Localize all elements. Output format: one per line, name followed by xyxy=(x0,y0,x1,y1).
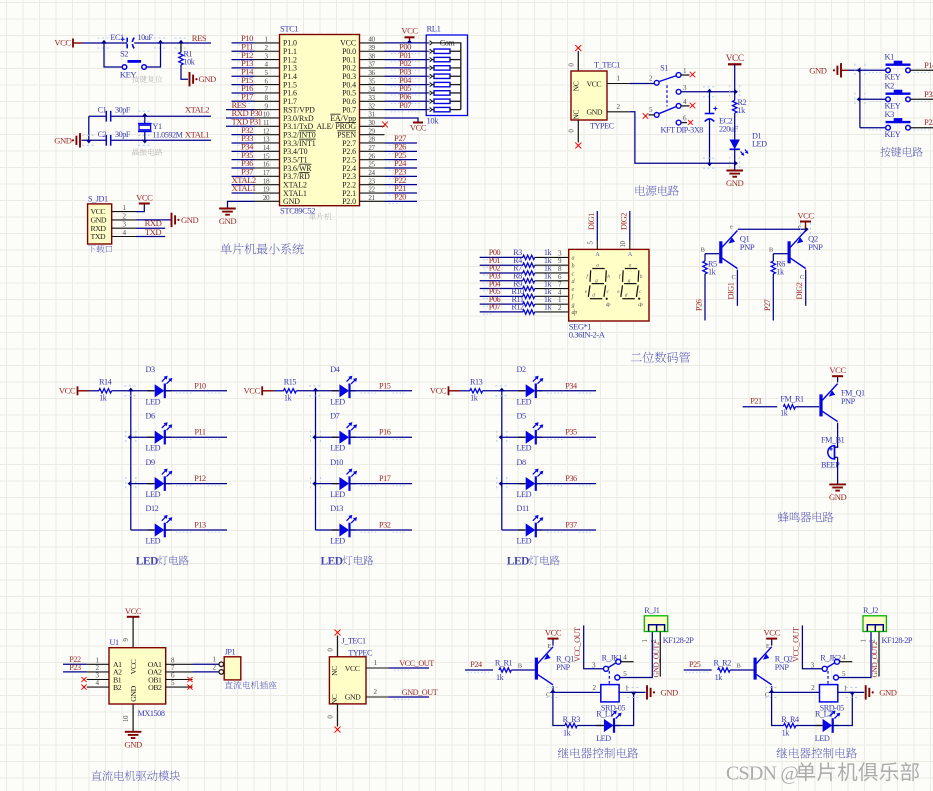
svg-text:20: 20 xyxy=(263,194,270,202)
svg-text:LED: LED xyxy=(146,397,161,406)
svg-text:LED: LED xyxy=(146,444,161,453)
svg-text:LED: LED xyxy=(517,537,532,546)
svg-text:VCC_OUT: VCC_OUT xyxy=(573,627,582,662)
wire R to SEG xyxy=(535,288,569,296)
svg-text:D11: D11 xyxy=(517,504,530,513)
wire RXD P30 xyxy=(226,108,262,118)
resistor R10 1k xyxy=(511,287,552,299)
annotation TYPEC xyxy=(590,122,615,131)
svg-text:C2: C2 xyxy=(98,130,107,139)
svg-text:KFT DIP-3X8: KFT DIP-3X8 xyxy=(661,125,704,134)
wire TEC top stub xyxy=(568,51,579,71)
no-ERC mark (TEC top) xyxy=(575,45,581,51)
svg-text:NC: NC xyxy=(330,666,339,676)
svg-text:T_TEC1: T_TEC1 xyxy=(594,61,620,70)
wire FM_R1 to base xyxy=(795,406,819,408)
switch R_JK1 xyxy=(592,653,627,680)
switch S2 KEY xyxy=(120,50,147,80)
svg-text:VCC: VCC xyxy=(587,79,602,88)
no-ERC mark B1 xyxy=(81,677,86,682)
capacitor EC2 220uF xyxy=(705,92,739,163)
wire P02 xyxy=(385,58,427,70)
wire S2 right leg xyxy=(147,43,161,67)
no-ERC mark (J_TEC bottom) xyxy=(335,727,341,733)
wire D1 to GND xyxy=(734,149,736,170)
wire Q2 base xyxy=(773,253,787,255)
U1 pin 5 OB2 xyxy=(148,679,192,692)
svg-text:R14: R14 xyxy=(99,377,112,386)
wire XTAL1 pin19 xyxy=(232,183,256,193)
svg-text:30: 30 xyxy=(368,119,375,127)
svg-text:D13: D13 xyxy=(330,504,343,513)
svg-text:STC1: STC1 xyxy=(280,24,298,34)
diode D13 LED xyxy=(330,504,357,545)
power port VCC (EA) inverted xyxy=(410,123,427,133)
ground (reset) xyxy=(190,72,217,86)
wire R to SEG xyxy=(535,273,569,281)
svg-text:S1: S1 xyxy=(660,64,668,73)
svg-text:GND: GND xyxy=(199,74,217,84)
S_JD1 pin name VCC xyxy=(91,207,106,216)
resistor R2 1k xyxy=(733,92,747,115)
svg-text:VCC: VCC xyxy=(829,365,846,375)
svg-text:0.36IN-2-A: 0.36IN-2-A xyxy=(569,330,606,340)
svg-text:FM_R1: FM_R1 xyxy=(780,394,804,403)
wire P01 xyxy=(385,50,427,62)
wire LED trunk xyxy=(501,391,503,530)
wire XTAL2 pin18 xyxy=(232,175,256,185)
wire LED trunk xyxy=(130,391,132,530)
wire to K3 xyxy=(860,127,886,129)
wire P15 out xyxy=(349,381,412,393)
wire VCC to U1 pin9 xyxy=(122,617,133,648)
title 继电器控制电路 xyxy=(777,748,857,759)
junction xyxy=(309,386,322,396)
wire collector to coil xyxy=(772,684,820,692)
svg-text:P27: P27 xyxy=(763,299,772,311)
svg-text:KF128-2P: KF128-2P xyxy=(663,636,694,645)
svg-text:R15: R15 xyxy=(284,377,297,386)
svg-text:P32: P32 xyxy=(379,521,391,530)
title LED灯电路 xyxy=(321,555,374,567)
svg-text:RES: RES xyxy=(192,33,207,43)
wire P00 xyxy=(385,41,427,53)
wire P16 xyxy=(232,83,255,95)
no-ERC mark (J_TEC top) xyxy=(335,630,341,636)
wire P06 xyxy=(385,91,427,103)
resistor R14 1k xyxy=(99,377,112,402)
wire P37 xyxy=(232,167,255,179)
svg-text:D7: D7 xyxy=(330,411,339,420)
wire Q1 base xyxy=(705,253,719,255)
U1 pin 4 B2 xyxy=(87,679,122,692)
svg-text:XTAL1: XTAL1 xyxy=(232,183,256,193)
svg-text:11.0592M: 11.0592M xyxy=(153,130,184,139)
junction xyxy=(765,687,778,697)
svg-text:VCC_OUT: VCC_OUT xyxy=(399,659,434,668)
power port VCC (Q1 Q2) xyxy=(797,210,814,229)
svg-text:EC1: EC1 xyxy=(110,33,124,42)
svg-text:GND: GND xyxy=(345,692,361,701)
transistor Q2 PNP xyxy=(769,224,823,282)
wire LED up to coil pin1 xyxy=(832,692,852,725)
wire R to SEG xyxy=(535,281,569,289)
no-ERC mark B2 xyxy=(81,685,86,690)
S_JD1 pin name RXD xyxy=(91,224,107,233)
svg-text:D12: D12 xyxy=(146,504,159,513)
annotation 晶振电路 xyxy=(132,148,162,155)
wire EA/Vpp to VCC xyxy=(385,118,419,123)
svg-text:29: 29 xyxy=(368,127,375,135)
wire to D9 xyxy=(131,483,154,485)
power port VCC (LED col) xyxy=(430,386,460,396)
svg-text:GND_OUT2: GND_OUT2 xyxy=(651,641,660,677)
svg-text:LED: LED xyxy=(330,397,345,406)
wire collector to coil xyxy=(553,684,601,692)
wire P22 xyxy=(63,655,87,665)
resistor R8 1k xyxy=(513,271,552,283)
S_JD1 pin name GND xyxy=(91,216,107,225)
junction xyxy=(801,223,811,236)
svg-text:GND_OUT: GND_OUT xyxy=(402,688,438,697)
ground (buzzer) xyxy=(829,484,847,502)
wire K2 out xyxy=(869,89,933,102)
junction xyxy=(138,111,151,121)
svg-text:40: 40 xyxy=(368,36,375,44)
wire GND_OUT xyxy=(388,688,438,699)
switch S1 KFT DIP-3X8 xyxy=(649,64,703,135)
wire R to LED xyxy=(796,725,822,727)
watermark CSDN xyxy=(726,762,919,784)
wire Q2 collector DIG2 xyxy=(795,270,806,306)
junction xyxy=(855,93,865,106)
wire P11 out xyxy=(164,428,227,440)
wire P02 to R xyxy=(480,264,523,276)
svg-text:MX1508: MX1508 xyxy=(138,709,165,718)
svg-text:39: 39 xyxy=(368,44,375,52)
svg-text:XTAL1: XTAL1 xyxy=(185,130,209,140)
svg-text:19: 19 xyxy=(263,186,270,194)
transistor R_Q2 PNP xyxy=(754,643,793,699)
wire coil pin1 to GND xyxy=(619,691,645,693)
svg-text:VCC: VCC xyxy=(244,386,261,396)
svg-text:27: 27 xyxy=(368,144,375,152)
svg-text:JP1: JP1 xyxy=(225,648,236,657)
svg-text:P35: P35 xyxy=(565,428,577,437)
svg-text:10: 10 xyxy=(122,715,130,722)
display SEG*1 0.36IN-2-A xyxy=(569,249,649,339)
wire VCC_OUT (relay) xyxy=(573,625,604,668)
J_TEC1 pin2 stub xyxy=(366,688,388,697)
svg-text:P25: P25 xyxy=(689,660,701,669)
resistor R6 1k xyxy=(771,260,785,277)
wire LED up to coil pin1 xyxy=(614,692,634,725)
wire P04 xyxy=(385,75,427,87)
svg-text:NC: NC xyxy=(572,110,581,120)
svg-text:GND: GND xyxy=(726,178,744,188)
junction xyxy=(730,85,740,98)
power port VCC (motor) xyxy=(125,606,142,617)
connector S_JD1 xyxy=(88,195,112,245)
wire U1 pin10 GND xyxy=(122,704,133,731)
wire XTAL2 rail xyxy=(89,115,211,117)
svg-text:PNP: PNP xyxy=(556,663,571,672)
junction xyxy=(311,477,321,490)
svg-text:32: 32 xyxy=(368,102,375,110)
wire R to LED xyxy=(577,725,603,727)
wire P12 out xyxy=(164,474,227,486)
wire P05 xyxy=(385,83,427,95)
resistor network RL1 10k xyxy=(426,24,467,126)
svg-text:P37: P37 xyxy=(565,521,577,530)
wire P01 to R xyxy=(480,256,523,268)
diode D7 LED xyxy=(330,411,357,452)
svg-text:GND: GND xyxy=(587,108,603,117)
diode D1 LED xyxy=(730,113,768,155)
svg-text:R_R1: R_R1 xyxy=(495,659,513,668)
svg-text:U1: U1 xyxy=(110,638,119,647)
title 单片机最小系统 xyxy=(220,243,303,254)
capacitor C1 30pF xyxy=(98,106,131,122)
transistor R_Q1 PNP xyxy=(535,643,574,699)
svg-text:P2.0: P2.0 xyxy=(342,197,356,206)
svg-text:VCC: VCC xyxy=(797,210,814,220)
svg-text:D4: D4 xyxy=(330,365,339,374)
wire base net P27 xyxy=(763,254,774,321)
svg-text:LED: LED xyxy=(330,537,345,546)
wire R to SEG xyxy=(535,304,569,312)
svg-text:D5: D5 xyxy=(517,411,526,420)
wire R_Q1 emitter to VCC xyxy=(552,639,554,645)
svg-text:D8: D8 xyxy=(517,458,526,467)
svg-text:GND: GND xyxy=(661,687,679,697)
wire P36 out xyxy=(535,474,596,486)
svg-text:GND: GND xyxy=(809,65,827,75)
diode D6 LED xyxy=(146,411,173,452)
ground (crystal) xyxy=(54,133,80,147)
svg-text:21: 21 xyxy=(368,194,375,202)
resistor R_R4 1k xyxy=(781,715,799,738)
wire R to trunk xyxy=(112,390,131,392)
svg-text:P07: P07 xyxy=(489,303,501,312)
svg-text:GND_OUT2: GND_OUT2 xyxy=(870,641,879,677)
svg-text:VCC: VCC xyxy=(129,659,138,674)
power port VCC (relay) xyxy=(545,627,562,638)
svg-text:24: 24 xyxy=(368,169,375,177)
wire TEC GND rail xyxy=(630,112,735,163)
svg-text:22: 22 xyxy=(368,186,375,194)
resistor R9 1k xyxy=(513,279,552,291)
wire VCC_OUT (relay) xyxy=(792,625,823,668)
wire pin40 VCC-Com xyxy=(385,42,427,44)
power port VCC (LED col) xyxy=(244,386,274,396)
wire P32 out xyxy=(349,521,412,533)
svg-text:PNP: PNP xyxy=(740,242,755,252)
wire to D7 xyxy=(316,436,339,438)
svg-text:KEY: KEY xyxy=(885,130,901,139)
svg-text:P10: P10 xyxy=(194,381,206,390)
junction xyxy=(175,38,188,48)
wire key trunk xyxy=(848,70,860,127)
svg-text:VCC: VCC xyxy=(59,386,76,396)
svg-text:VCC: VCC xyxy=(545,627,562,637)
wire JD1 pin1 to VCC xyxy=(136,204,144,212)
connector J_TEC1 TYPEC xyxy=(329,637,373,705)
power port VCC (reset) xyxy=(54,38,82,48)
wire collector down xyxy=(553,692,565,725)
svg-text:P13: P13 xyxy=(194,521,206,530)
resistor R_R1 1k xyxy=(495,659,513,683)
wire TXD xyxy=(136,227,165,237)
junction xyxy=(703,158,716,168)
resistor R7 1k xyxy=(513,264,552,276)
svg-text:GND: GND xyxy=(879,687,897,697)
wire Q1 collector DIG1 xyxy=(727,270,738,306)
wire GND_OUT2 (relay) xyxy=(651,632,660,678)
svg-text:GND: GND xyxy=(829,492,847,502)
svg-text:23: 23 xyxy=(368,177,375,185)
buzzer FM_B1 BEEP xyxy=(821,435,845,469)
svg-text:LED: LED xyxy=(517,444,532,453)
title 直流电机驱动模块 xyxy=(91,770,180,781)
svg-text:P14: P14 xyxy=(924,60,933,70)
wire DIG2 (display pin10) xyxy=(619,211,630,249)
svg-text:36: 36 xyxy=(368,69,375,77)
power port VCC (LED col) xyxy=(59,386,89,396)
diode D9 LED xyxy=(146,458,173,499)
svg-text:15: 15 xyxy=(263,152,270,160)
svg-text:LED: LED xyxy=(517,397,532,406)
resistor R15 1k xyxy=(284,377,297,402)
svg-text:TXD: TXD xyxy=(145,227,162,237)
svg-text:GND: GND xyxy=(283,197,300,206)
svg-text:LED: LED xyxy=(815,734,830,743)
wire VCC to RES xyxy=(82,42,211,44)
wire to D6 xyxy=(131,436,154,438)
no-ERC mark pin30 xyxy=(382,122,388,128)
junction xyxy=(855,64,865,77)
wire R_Q1 collector xyxy=(552,686,554,692)
S_JD1 pin 4 stub xyxy=(112,229,136,237)
junction xyxy=(154,38,167,48)
wire XTAL1 rail xyxy=(82,139,212,141)
wire K1 out xyxy=(869,60,933,73)
wire to D3 xyxy=(131,390,154,392)
svg-text:K3: K3 xyxy=(885,110,895,119)
wire P14 xyxy=(232,66,255,78)
wire P12 xyxy=(232,50,255,62)
svg-text:CSDN @: CSDN @ xyxy=(726,763,798,785)
svg-text:P36: P36 xyxy=(565,474,577,483)
wire TXD P31 xyxy=(226,117,262,127)
svg-text:C1: C1 xyxy=(98,106,107,115)
wire to D12 xyxy=(131,529,154,531)
wire VCC to R15 xyxy=(274,390,284,392)
wire coil pin1 to GND xyxy=(838,691,864,693)
svg-text:30pF: 30pF xyxy=(115,106,131,115)
svg-text:NC: NC xyxy=(330,694,339,704)
no-ERC mark OB2 xyxy=(187,685,192,690)
connector JP1 xyxy=(219,648,241,680)
wire P23 xyxy=(385,167,418,179)
wire P27 xyxy=(385,133,418,145)
wire P34 out xyxy=(535,381,596,393)
svg-text:LED: LED xyxy=(321,556,343,568)
wire collector down xyxy=(772,692,784,725)
svg-text:DIG1: DIG1 xyxy=(587,213,596,230)
junction xyxy=(138,135,151,145)
MCU left pins 1-20 xyxy=(255,36,316,207)
wire R to trunk xyxy=(296,390,315,392)
wire to D8 xyxy=(502,483,525,485)
svg-text:R_JK1: R_JK1 xyxy=(602,654,623,663)
wire R to SEG xyxy=(535,265,569,273)
wire P21 xyxy=(385,183,418,195)
svg-text:VCC: VCC xyxy=(430,386,447,396)
no-ERC mark (TEC bottom) xyxy=(575,143,581,149)
svg-text:R_J1: R_J1 xyxy=(644,606,659,615)
wire P33 xyxy=(232,133,255,145)
wire P03 xyxy=(385,66,427,78)
svg-text:P17: P17 xyxy=(379,474,391,483)
relay coil SRD-05 xyxy=(601,671,629,713)
svg-text:K2: K2 xyxy=(885,82,895,91)
wire R to trunk xyxy=(483,390,502,392)
svg-text:P21: P21 xyxy=(750,396,762,405)
U1 pin 8 OA1 xyxy=(148,656,193,669)
svg-text:VCC_OUT: VCC_OUT xyxy=(792,627,801,662)
svg-text:220uF: 220uF xyxy=(719,125,739,134)
svg-text:P12: P12 xyxy=(194,474,206,483)
switch K1 KEY xyxy=(885,53,911,82)
wire FM_Q1 collector xyxy=(837,423,839,447)
S1 pin1 stub + noERC xyxy=(681,72,695,78)
diode D2 LED xyxy=(517,365,544,406)
svg-text:P26: P26 xyxy=(695,299,704,311)
wire to K2 xyxy=(860,98,886,100)
resistor R4 1k xyxy=(513,256,552,268)
svg-text:KF128-2P: KF128-2P xyxy=(882,636,913,645)
switch K3 KEY xyxy=(885,110,911,139)
svg-text:D3: D3 xyxy=(146,365,155,374)
wire P16 out xyxy=(349,428,412,440)
power port VCC (relay) xyxy=(764,627,781,638)
S1 pin6 stub + noERC xyxy=(681,120,693,125)
svg-text:P16: P16 xyxy=(379,428,391,437)
svg-text:SRD-05: SRD-05 xyxy=(820,704,844,713)
svg-text:P23: P23 xyxy=(69,663,81,672)
svg-text:S_JD1: S_JD1 xyxy=(88,195,108,204)
wire P37 out xyxy=(535,521,596,533)
MCU right pins 40-21 xyxy=(316,36,384,207)
svg-text:11: 11 xyxy=(263,119,270,127)
annotation 下载口 xyxy=(88,245,112,253)
T_TEC1 pin2 stub xyxy=(607,103,630,112)
wire S1 pin3 rail xyxy=(681,91,735,93)
svg-text:LED: LED xyxy=(146,537,161,546)
junction xyxy=(126,477,136,490)
power port VCC (JD1) xyxy=(136,192,153,203)
transistor Q1 PNP xyxy=(701,224,755,282)
wire FM_Q1 emitter to VCC xyxy=(837,377,839,382)
connector R_J1 KF128-2P xyxy=(641,606,694,645)
svg-text:SRD-05: SRD-05 xyxy=(601,704,625,713)
svg-text:10k: 10k xyxy=(427,116,440,126)
wire JK pin5 to J1 xyxy=(839,632,872,678)
wire JK pin5 to J1 xyxy=(620,632,653,678)
svg-text:14: 14 xyxy=(263,144,270,152)
diode D12 LED xyxy=(146,504,173,545)
